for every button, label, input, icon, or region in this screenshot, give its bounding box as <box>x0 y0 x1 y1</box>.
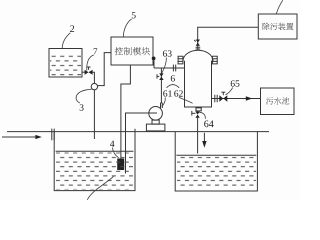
labels 61 62 <box>162 90 193 106</box>
label 64 <box>199 112 213 127</box>
outlet pipe to sewage pool <box>212 95 261 102</box>
vessel top pipe to decontamination unit <box>198 27 259 50</box>
right pool water <box>176 155 256 188</box>
label 4 <box>110 141 119 158</box>
decontamination device box <box>258 14 297 39</box>
pipe valve7 to flowmeter <box>93 72 95 83</box>
label 5 <box>123 12 135 37</box>
inlet flow arrow <box>2 135 42 139</box>
label 65 <box>226 80 240 95</box>
drain flow arrow <box>202 133 206 148</box>
tank 2 (dosing tank) <box>49 49 82 78</box>
flowmeter circle <box>91 83 97 89</box>
pump nozzle loop <box>161 103 163 109</box>
control wire circle-to-module <box>98 53 111 86</box>
pump 61 <box>146 107 165 131</box>
right pool walls <box>175 132 257 191</box>
label 2 <box>62 25 74 48</box>
pump discharge pipe <box>160 68 162 103</box>
filter vessel 6 body <box>183 50 213 107</box>
valve 63 <box>157 73 164 80</box>
terminal dot on module corner <box>152 57 156 61</box>
flow arrow to sewage pool <box>246 96 252 100</box>
level sensor 4 <box>117 159 124 171</box>
wire from terminal to pipe <box>153 60 155 68</box>
dosing pipe into pool <box>93 90 95 139</box>
drain pipe into pool <box>197 118 199 154</box>
control module box 5 <box>111 37 153 65</box>
pipe valve63 to vessel with flange <box>154 65 185 72</box>
valve 7 <box>82 67 93 75</box>
valve 65 <box>219 92 227 102</box>
pool 1 water <box>56 151 134 189</box>
top valve <box>194 40 200 46</box>
bottom flange <box>195 108 201 111</box>
sewage pool box <box>261 88 295 115</box>
inlet flange ticks <box>52 129 54 141</box>
valve 64 <box>192 111 200 118</box>
wire module to level sensor 4 <box>121 65 130 159</box>
top flange ticks <box>196 47 201 49</box>
left nozzle flange <box>178 56 184 64</box>
pool 1 walls <box>54 132 135 191</box>
leader to cropped label 1 <box>87 176 113 200</box>
leader to cropped label (top) <box>276 0 283 14</box>
wire to pump motor <box>126 113 158 174</box>
label 63 <box>162 50 172 73</box>
ground / pool top line <box>7 131 269 133</box>
pool 1 wall stub <box>134 129 136 132</box>
label 6 with brace <box>167 75 180 88</box>
label 3 <box>76 89 92 110</box>
label 7 <box>87 48 98 70</box>
right nozzle flange <box>212 56 218 64</box>
